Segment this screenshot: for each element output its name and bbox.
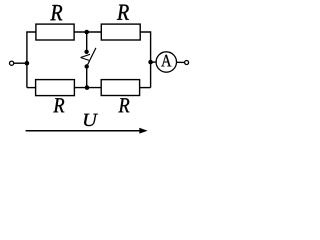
voltage U arrowhead [139, 128, 147, 134]
switch K arrow barb lower [81, 58, 89, 61]
wire bottom-right corner [140, 87, 151, 89]
wire left rail [27, 32, 36, 88]
node bottom junction dot [85, 85, 90, 90]
label U [84, 114, 98, 126]
switch K lower contact dot [85, 64, 89, 68]
label R2 [117, 5, 129, 20]
resistor R3 (bottom left) [36, 80, 75, 96]
resistor R2 (top right) [101, 24, 140, 40]
wire node right to ammeter [151, 61, 157, 63]
switch K arrow barb upper [81, 54, 90, 57]
ammeter PA1 letter A [161, 55, 171, 67]
wire R1 to R2 [74, 31, 101, 33]
resistor R4 (bottom right) [101, 80, 139, 96]
resistor R1 (top left) [36, 24, 74, 40]
terminal left [10, 61, 14, 65]
switch K upper contact dot [84, 50, 88, 54]
wire node top to switch [86, 32, 88, 52]
terminal right [185, 61, 189, 65]
wire ammeter to terminal right [177, 61, 185, 63]
ammeter PA1 circle [156, 52, 176, 72]
label R4 [118, 98, 129, 112]
wire top-right corner down [140, 32, 150, 62]
wire terminal-left to node left [14, 62, 27, 64]
label R3 [53, 98, 64, 112]
node right junction dot [148, 60, 153, 65]
wire switch to node bottom [86, 67, 88, 88]
wire bottom-left corner [27, 87, 36, 89]
wire R3 to R4 [74, 87, 101, 89]
switch K blade [87, 48, 96, 67]
node top junction dot [84, 30, 89, 35]
voltage U arrow shaft [26, 130, 141, 132]
node left junction dot [25, 61, 30, 66]
label R1 [50, 5, 62, 20]
wire right rail lower [150, 62, 152, 88]
